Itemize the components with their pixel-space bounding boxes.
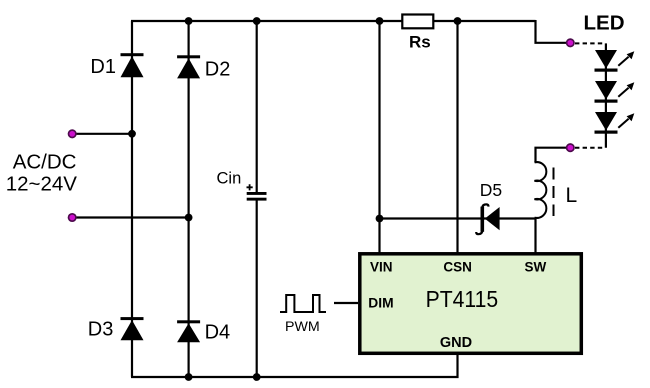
svg-text:D3: D3 [88, 318, 114, 340]
svg-text:Rs: Rs [409, 33, 431, 52]
svg-text:12~24V: 12~24V [6, 173, 78, 196]
svg-text:L: L [566, 184, 578, 207]
svg-text:Cin: Cin [217, 170, 242, 188]
svg-text:AC/DC: AC/DC [13, 151, 77, 174]
svg-text:GND: GND [440, 335, 472, 351]
svg-text:VIN: VIN [370, 259, 393, 274]
svg-text:D5: D5 [480, 180, 502, 200]
svg-text:D2: D2 [205, 59, 231, 81]
svg-text:D1: D1 [90, 56, 116, 78]
svg-text:DIM: DIM [368, 296, 393, 311]
svg-text:PWM: PWM [285, 319, 320, 335]
svg-text:PT4115: PT4115 [426, 286, 499, 312]
svg-text:SW: SW [525, 259, 547, 274]
svg-text:LED: LED [584, 12, 625, 35]
svg-text:CSN: CSN [443, 259, 472, 274]
svg-text:D4: D4 [205, 321, 231, 343]
